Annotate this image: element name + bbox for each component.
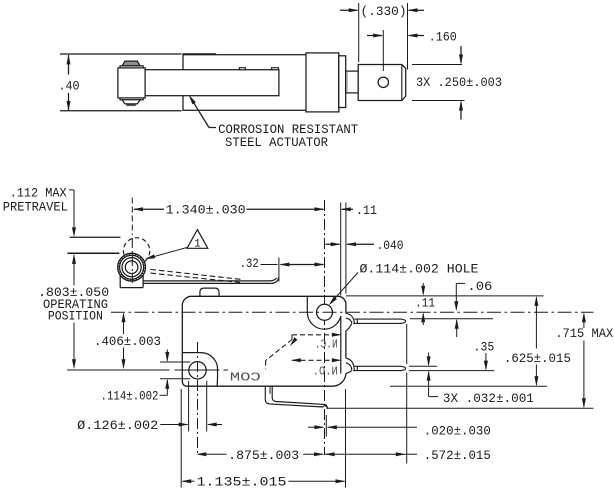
- terminal N.O. blade (front view): [353, 366, 405, 370]
- svg-text:1.135±.015: 1.135±.015: [197, 474, 287, 489]
- leader corrosion resistant steel actuator: [189, 95, 358, 150]
- svg-text:.715 MAX: .715 MAX: [555, 326, 613, 341]
- roller free position (dashed circle): [123, 238, 149, 264]
- lower hole centerline vertical: [197, 342, 199, 455]
- roller top cap (top view): [122, 61, 140, 66]
- lever free position (dashed): [151, 269, 244, 282]
- dimension .11 (right): [415, 283, 435, 325]
- svg-text:POSITION: POSITION: [48, 308, 103, 323]
- tab on lever (top view) 2: [272, 68, 279, 70]
- svg-text:.06: .06: [467, 279, 492, 294]
- internal contact N.O. (dashed): [291, 358, 342, 362]
- svg-text:N.O.: N.O.: [313, 365, 338, 378]
- extension line N.O. blade bottom: [409, 370, 494, 372]
- mounting boss upper right: [307, 296, 341, 329]
- svg-text:.35: .35: [473, 339, 494, 354]
- svg-text:Ø.126±.002: Ø.126±.002: [77, 418, 158, 433]
- svg-text:1.340±.030: 1.340±.030: [166, 203, 246, 218]
- dimension .572±.015: [325, 448, 491, 463]
- top view lever plane upper edge line: [60, 53, 182, 55]
- svg-text:.625±.015: .625±.015: [504, 351, 571, 366]
- hole centerline vertical: [324, 200, 326, 455]
- body seam line: [340, 316, 342, 373]
- dimension .32: [240, 256, 325, 282]
- dimension 1.135±.015: [181, 474, 345, 489]
- terminal blade (top view): [358, 65, 406, 101]
- plunger (front view): [200, 288, 219, 296]
- dimension .020±.030: [308, 415, 491, 438]
- dimension .040: [326, 238, 404, 253]
- dimension .875±.003: [196, 448, 324, 463]
- tab on lever (top view) 1: [239, 68, 245, 70]
- roller centerline: [131, 238, 133, 283]
- roller bottom flange (top view): [120, 96, 143, 100]
- svg-text:.40: .40: [59, 79, 80, 94]
- roller bracket (front view): [120, 262, 143, 288]
- svg-text:.11: .11: [415, 296, 435, 311]
- svg-text:Ø.114±.002 HOLE: Ø.114±.002 HOLE: [360, 261, 479, 276]
- roller bottom cap (top view): [122, 100, 140, 106]
- dimension (.330): [340, 3, 424, 70]
- svg-text:.875±.003: .875±.003: [228, 448, 299, 463]
- molded text N.C. (mirrored): [315, 339, 338, 352]
- extension line body top: [346, 295, 544, 297]
- svg-text:.114±.002: .114±.002: [101, 388, 159, 403]
- svg-text:.160: .160: [429, 29, 457, 44]
- dimension .406±.003: [94, 312, 161, 369]
- dimension .40: [59, 54, 80, 111]
- switch body (top view): [182, 54, 338, 110]
- label Ø.114±.002 HOLE: [329, 261, 479, 305]
- terminal neck (top view): [346, 71, 359, 93]
- lower hole centerline horizontal: [67, 369, 228, 371]
- warning triangle note 1: [145, 230, 208, 260]
- svg-text:1: 1: [194, 238, 201, 250]
- dimension .06: [454, 279, 492, 312]
- svg-text:PRETRAVEL: PRETRAVEL: [3, 199, 68, 214]
- operating position line: [67, 252, 119, 254]
- extension line body bottom: [390, 385, 547, 387]
- extension line seam: [340, 203, 342, 296]
- dimension .715 MAX: [555, 312, 613, 408]
- svg-text:.32: .32: [240, 256, 259, 271]
- bottom reference line: [328, 407, 594, 409]
- horizontal centerline: [111, 311, 594, 313]
- dimension 3X .250±.003: [412, 46, 502, 120]
- top view lever plane lower edge line: [60, 110, 182, 112]
- switch body outline (front view): [182, 296, 346, 386]
- mounting hole upper right: [317, 304, 333, 320]
- dimension 1.340±.030: [132, 198, 324, 236]
- dimension .803±.050 OPERATING POSITION: [38, 285, 109, 370]
- dimension .114±.002: [101, 350, 191, 404]
- svg-text:COM: COM: [230, 370, 261, 384]
- terminal boss N.C. (front view): [346, 313, 354, 330]
- dimension Ø.126±.002: [77, 381, 222, 433]
- svg-text:.112 MAX: .112 MAX: [10, 186, 67, 201]
- extension line body right: [345, 389, 347, 488]
- dimension .11 (top): [341, 203, 377, 218]
- switch body cover section (top view): [306, 53, 339, 112]
- svg-text:.11: .11: [356, 203, 377, 218]
- svg-text:STEEL ACTUATOR: STEEL ACTUATOR: [225, 135, 328, 150]
- svg-text:.020±.030: .020±.030: [424, 423, 491, 438]
- extension line N.O. blade top: [409, 365, 437, 367]
- svg-text:N.C.: N.C.: [315, 339, 338, 352]
- dimension .160: [367, 29, 457, 71]
- svg-text:3X .250±.003: 3X .250±.003: [416, 75, 502, 90]
- terminal COM (front view): [265, 386, 327, 409]
- terminal N.C. blade (front view): [353, 319, 405, 323]
- dimension 3X .032±.001: [427, 353, 534, 406]
- svg-text:.572±.015: .572±.015: [424, 448, 491, 463]
- roller body (top view): [118, 68, 145, 98]
- lever arm (front view): [143, 277, 279, 283]
- dimension .35: [455, 319, 495, 371]
- mounting hole lower left: [189, 362, 206, 379]
- lever arm (top view): [145, 70, 279, 96]
- dimension .112 MAX PRETRAVEL: [3, 186, 76, 286]
- switch body end plate (top view): [339, 56, 346, 108]
- extension line N.C. blade top: [410, 318, 493, 320]
- roller top flange (top view): [120, 66, 143, 71]
- svg-text:.406±.003: .406±.003: [94, 334, 161, 349]
- extension line body right edge: [345, 203, 347, 294]
- svg-text:(.330): (.330): [361, 4, 407, 19]
- free position line: [70, 236, 121, 238]
- svg-text:3X .032±.001: 3X .032±.001: [443, 391, 534, 406]
- molded text N.O. (mirrored): [313, 365, 338, 378]
- svg-text:.040: .040: [377, 238, 404, 253]
- dimension .625±.015: [504, 296, 571, 386]
- mounting boss lower left: [182, 353, 217, 387]
- terminal boss N.O. (front view): [346, 358, 354, 373]
- internal contact N.C. (dashed): [266, 333, 342, 370]
- extension line terminal ends: [406, 324, 408, 464]
- roller (front view): [118, 253, 146, 281]
- molded text COM (mirrored): [230, 370, 261, 384]
- extension line body left: [180, 389, 182, 488]
- terminal hole (top view): [378, 77, 388, 87]
